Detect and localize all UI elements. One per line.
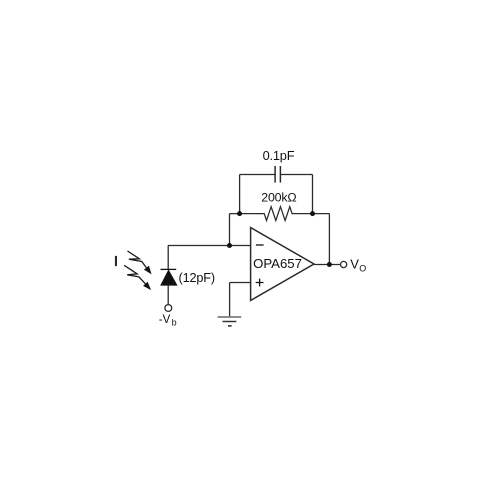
output terminal circle <box>341 261 347 267</box>
bias terminal circle <box>165 305 172 312</box>
photodiode D1 triangle <box>161 270 177 285</box>
svg-text:0.1pF: 0.1pF <box>263 148 295 163</box>
inverting input marker (minus) <box>256 244 264 246</box>
svg-text:O: O <box>359 263 366 273</box>
ground <box>218 317 242 326</box>
junction node: cap left to resistor <box>237 211 242 216</box>
junction node: cap right to resistor <box>310 211 315 216</box>
svg-text:-V: -V <box>159 314 171 326</box>
svg-text:V: V <box>350 256 359 271</box>
label I (photocurrent) <box>115 256 117 266</box>
non-inverting input marker (plus) <box>256 279 264 287</box>
wire photodiode anode vertical <box>167 285 169 305</box>
svg-text:b: b <box>172 318 177 328</box>
wire non-inverting input horizontal <box>230 282 251 284</box>
wire capacitor left leg <box>239 175 241 214</box>
wire inverting input horizontal <box>168 245 251 247</box>
photodiode D1 cathode bar <box>161 268 177 270</box>
wire ground vertical <box>229 283 231 317</box>
wire output horizontal <box>314 264 340 266</box>
op-amp U1 <box>251 228 314 301</box>
junction node: feedback to inverting input <box>227 243 232 248</box>
capacitor C1 <box>240 166 313 183</box>
wire photodiode cathode vertical <box>167 246 169 270</box>
light arrow 1 <box>128 251 147 268</box>
svg-text:(12pF): (12pF) <box>179 271 215 285</box>
wire feedback left vertical <box>229 214 231 246</box>
wire capacitor right leg <box>312 175 314 214</box>
svg-text:OPA657: OPA657 <box>253 256 302 271</box>
svg-text:200kΩ: 200kΩ <box>261 191 296 205</box>
resistor R1 200k <box>230 207 330 221</box>
light arrow 2 <box>124 265 145 284</box>
wire feedback right vertical <box>328 214 330 265</box>
junction node: output to feedback <box>327 262 332 267</box>
